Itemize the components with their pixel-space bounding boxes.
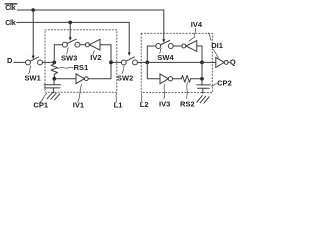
node D label [7,56,13,65]
svg-text:L1: L1 [114,101,123,110]
buffer DI1 [216,57,224,67]
junction on Clk-bar rail [31,8,35,12]
wire D input [14,61,26,63]
svg-text:IV3: IV3 [159,100,170,109]
svg-text:L2: L2 [140,100,149,109]
svg-text:IV1: IV1 [73,101,84,110]
latch L2 dashed box [141,33,212,92]
resistor RS2 [181,75,190,82]
resistor RS1 [51,62,58,78]
svg-text:SW1: SW1 [25,73,41,82]
wire to DI1 [202,61,216,63]
label DI1 [211,41,223,50]
node Clk-bar label [5,4,17,12]
label L1 [114,101,123,110]
wire Clk-bar drop to SW1 [32,10,34,56]
inverter IV2 [85,43,89,47]
wire Clk-bar rail [17,9,164,11]
junction at SW2 input [109,61,113,65]
capacitor CP2 [197,79,211,93]
label SW2 [117,73,133,82]
wire SW3 to IV2 [80,44,86,46]
svg-text:RS2: RS2 [180,100,195,109]
wire L2 bottom row [147,61,202,63]
wire SW1 to node A [42,61,54,63]
junction on Clk rail [68,21,72,25]
wire DI1 to Q [228,61,229,63]
wire Clk rail [17,21,129,23]
wire IV1 output [88,78,111,80]
latch L1 dashed box [45,30,117,92]
wire IV2 input from right [100,45,111,79]
wire RS2 to node D2 [191,78,202,80]
inverter IV3 [160,74,168,84]
capacitor CP1 [44,79,60,93]
ground for CP1 [47,93,60,100]
node B junction [52,77,56,81]
label IV3 [159,100,170,109]
wire to SW4 [147,45,156,47]
label SW3 [61,54,77,63]
label SW4 [157,53,174,62]
wire junction down from DI1 row [201,62,203,78]
wire node A up [53,45,55,63]
svg-text:SW2: SW2 [117,73,133,82]
svg-text:RS1: RS1 [74,63,89,72]
label SW1 [25,73,41,82]
label IV4 [191,20,203,29]
svg-text:Clk: Clk [5,20,16,27]
wire node C down to IV3 [147,62,160,78]
inverter IV1 [76,74,84,84]
label CP2 [217,79,232,88]
wire node C up [146,46,148,62]
switch SW4 [156,44,161,49]
switch SW2 [121,60,126,65]
wire to SW2 [111,61,121,63]
label RS1 [74,63,89,72]
label IV2 [90,53,101,62]
svg-text:IV2: IV2 [90,53,101,62]
svg-text:IV4: IV4 [191,20,203,29]
ground for CP2 [197,96,209,104]
wire Clk drop to SW3 [69,22,71,37]
wire SW2 to node C [137,61,147,63]
svg-text:DI1: DI1 [211,41,223,50]
wire Clk-bar drop to SW4 [163,10,165,39]
svg-text:Clk: Clk [5,5,16,12]
wire IV3 to RS2 [173,78,182,80]
label IV1 [73,101,84,110]
svg-text:Q: Q [230,58,236,67]
junction at DI1 input [200,61,204,65]
node C junction [145,61,149,65]
wire to SW3 [54,44,62,46]
inverter IV4 [182,44,186,48]
wire SW4 to IV4 [173,45,182,47]
svg-text:SW3: SW3 [61,54,77,63]
wire IV4 input from right [197,46,202,62]
svg-text:SW4: SW4 [157,53,174,62]
wire node B to IV1 [54,78,76,80]
switch SW3 [62,42,67,47]
label L2 [140,100,149,109]
node Q label [230,58,236,67]
switch SW1 [26,60,31,65]
svg-text:D: D [7,56,13,65]
node A junction [52,61,56,65]
label CP1 [33,101,48,110]
label RS2 [180,100,195,109]
node Clk label [5,20,16,27]
junction above CP2 [200,77,204,81]
svg-text:CP2: CP2 [217,79,232,88]
wire Clk drop to SW2 [128,22,130,52]
